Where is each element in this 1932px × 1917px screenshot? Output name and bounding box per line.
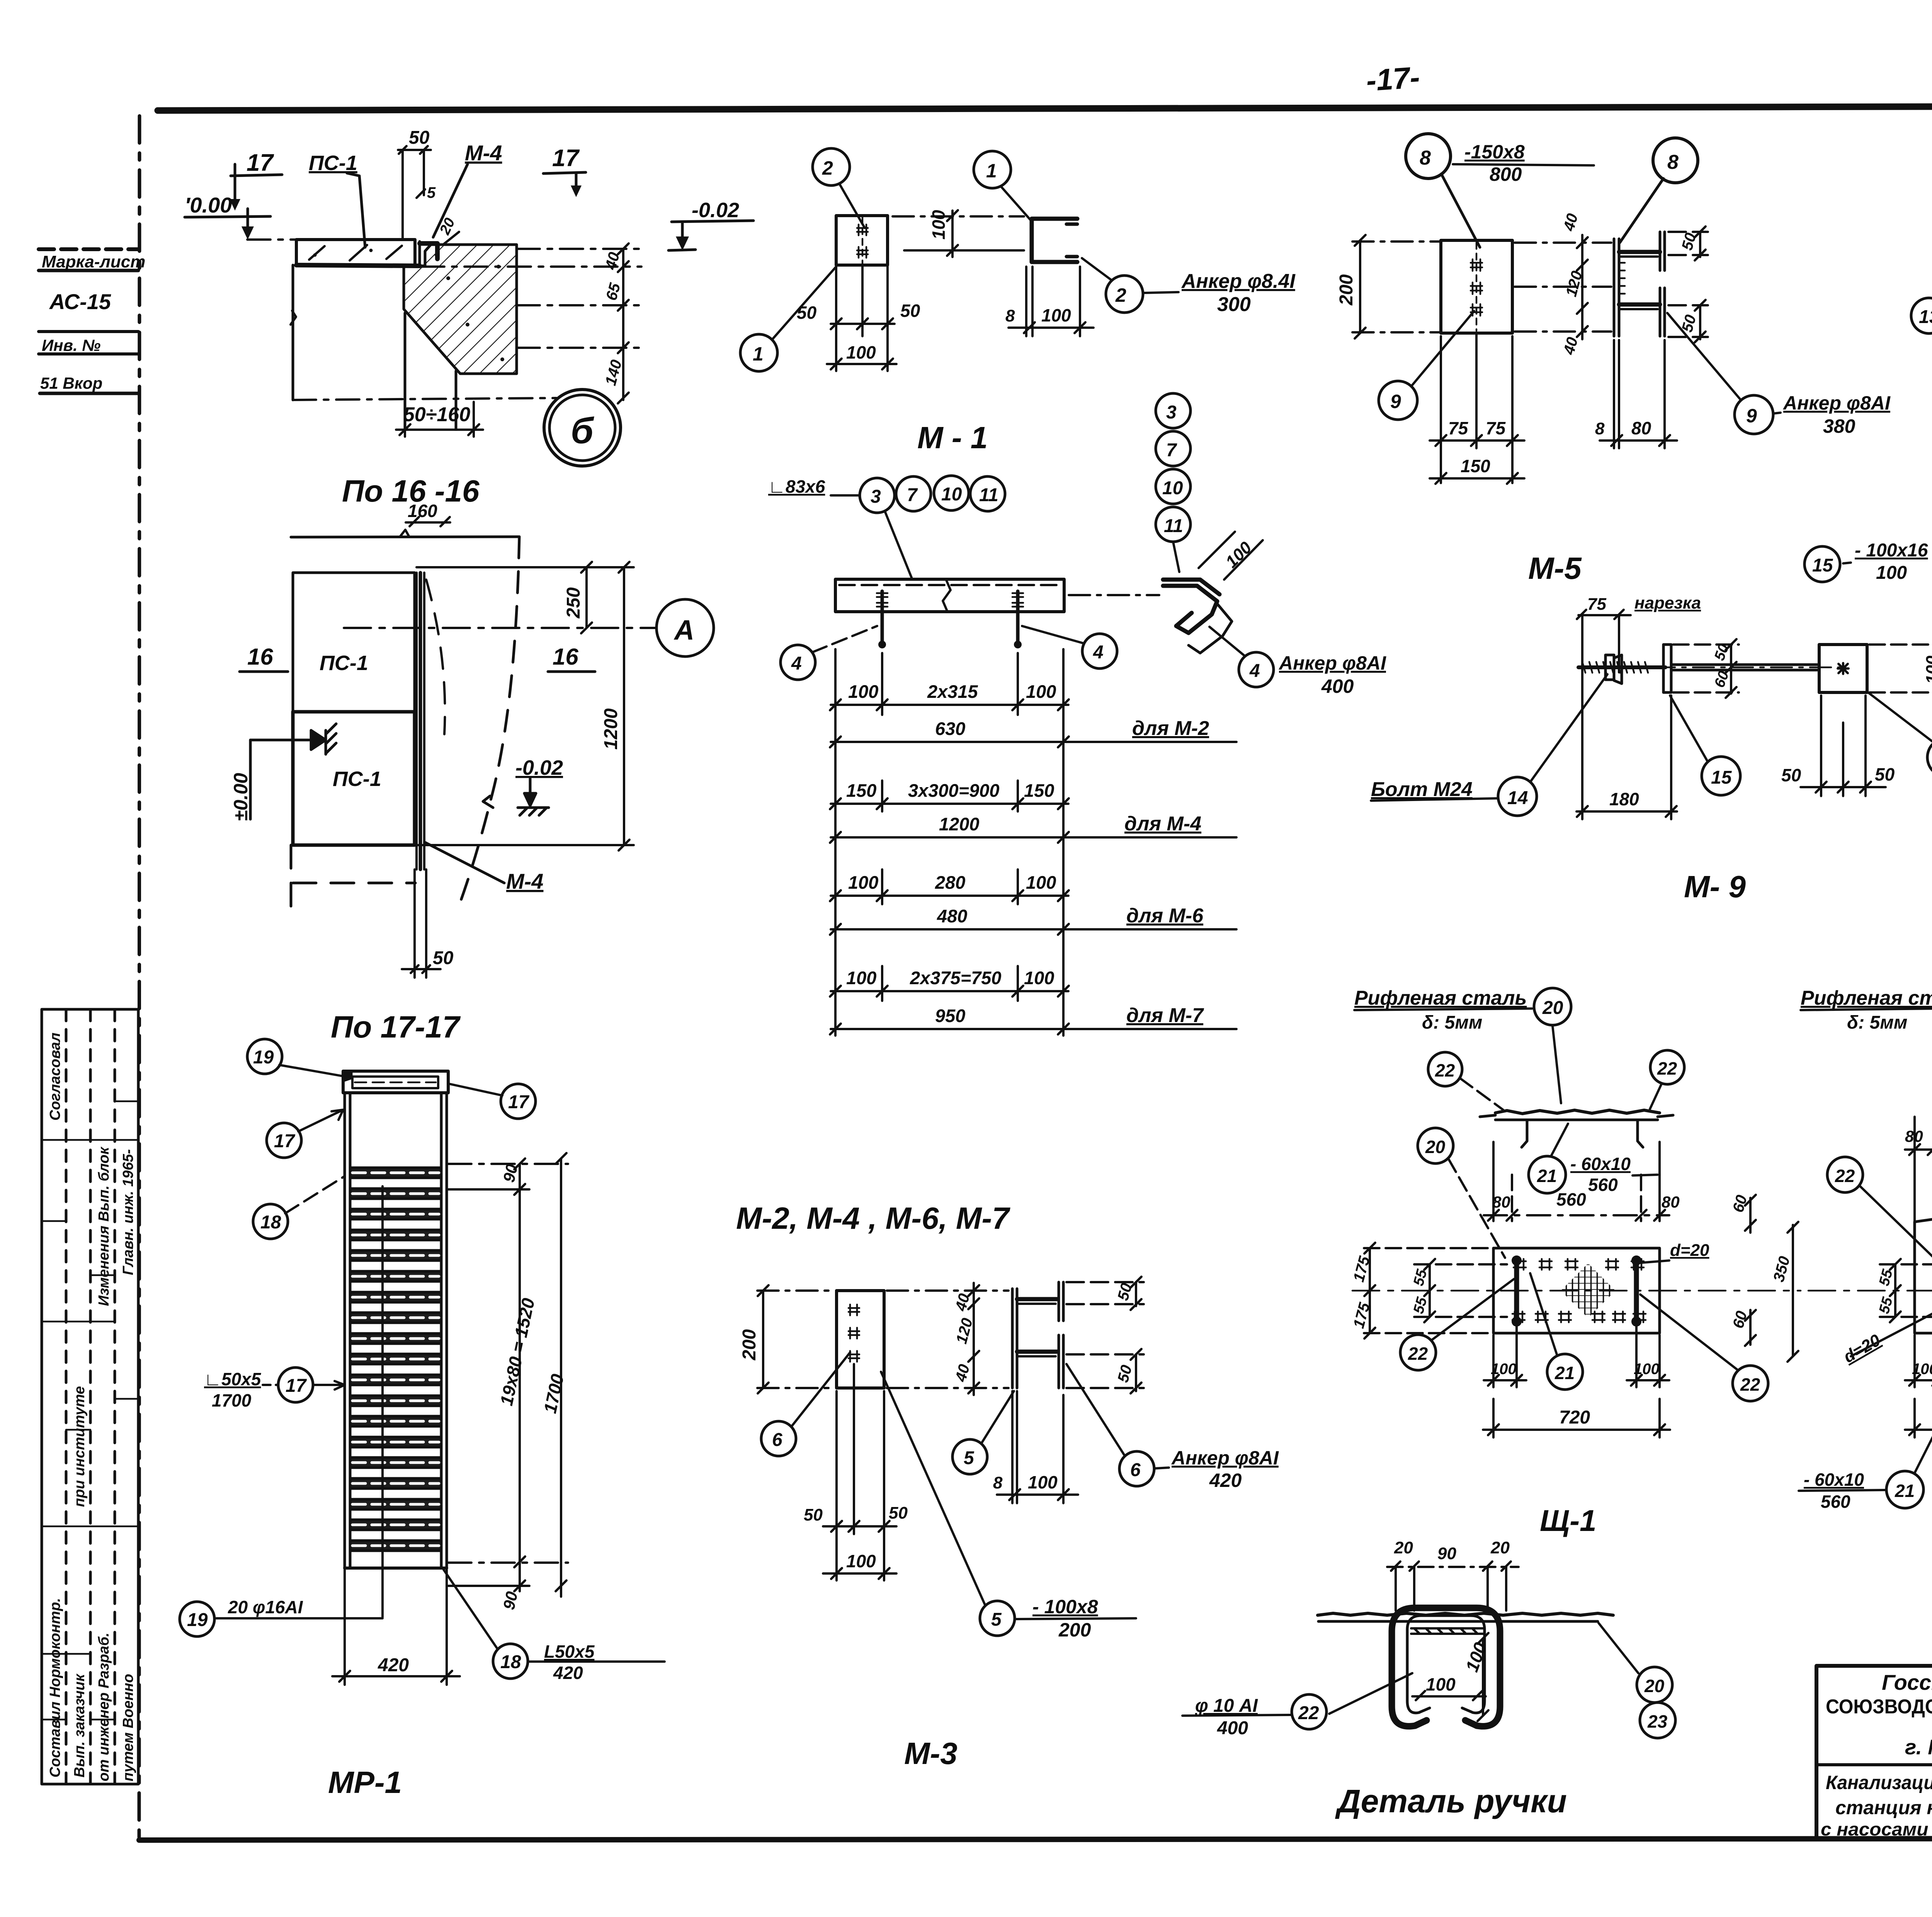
marker circle 8 right [1653,138,1698,183]
callout L50x5/420 with circle 18 [493,1644,528,1679]
svg-text:2x315: 2x315 [927,681,978,702]
svg-text:7: 7 [907,485,918,505]
svg-text:∟83x6: ∟83x6 [768,476,825,497]
top checkered plate [1318,1613,1613,1621]
dim row y=1920 [830,737,1069,747]
dim row y=1824 [830,699,1069,710]
svg-text:- 100x8: - 100x8 [1032,1596,1098,1618]
dims 40 120 40 [1577,235,1588,339]
svg-text:L50x5: L50x5 [544,1641,595,1662]
svg-text:800: 800 [1490,163,1522,185]
dim 100 vertical [1478,1633,1488,1721]
svg-text:75: 75 [1448,418,1469,438]
corner bracket detail [1163,580,1232,653]
svg-text:420: 420 [553,1663,583,1683]
svg-text:МР-1: МР-1 [328,1765,402,1800]
marker circle 22 right low [1733,1366,1768,1401]
svg-text:2: 2 [1115,284,1126,306]
dim 100 vertical between views [947,210,958,257]
panel top edge [291,537,519,537]
svg-text:80: 80 [1905,1127,1923,1145]
dim row 80 560 80 above Щ-1 [1484,1142,1669,1221]
svg-text:100: 100 [1923,655,1932,684]
centerline Щ-2 [1808,1290,1932,1292]
dim 180 [1577,696,1677,819]
svg-text:40: 40 [1560,212,1581,233]
marker circle 2 right with anchor text [1106,276,1143,313]
marker circle 13 left [1911,298,1932,333]
svg-text:-0.02: -0.02 [515,756,563,779]
marker circle 6 left [761,1421,796,1456]
embedded strip М-4 [417,573,424,869]
svg-text:100: 100 [1912,1361,1932,1378]
svg-text:100: 100 [1026,872,1056,893]
dims 40 120 40 mid [968,1283,979,1395]
svg-text:б: б [571,410,594,451]
svg-text:17: 17 [286,1376,307,1396]
svg-text:15: 15 [1711,767,1732,788]
svg-text:для М-4: для М-4 [1124,813,1201,835]
svg-text:55: 55 [1410,1267,1430,1288]
svg-text:11: 11 [979,485,998,505]
svg-text:1700: 1700 [540,1372,568,1415]
marker circle 5 [952,1439,987,1474]
svg-text:150: 150 [846,780,876,801]
svg-text:17: 17 [552,145,580,172]
svg-text:для М-7: для М-7 [1126,1004,1204,1027]
svg-text:100: 100 [1041,305,1071,325]
svg-text:280: 280 [935,872,965,893]
figure МР-1 ladder : top cap plate [343,1071,448,1093]
right dim chain 40 65 140 [618,243,629,403]
dim row y=2080 [830,798,1069,809]
svg-text:16: 16 [553,644,578,670]
svg-text:δ: 5мм: δ: 5мм [1422,1012,1482,1033]
svg-text:М-5: М-5 [1528,551,1582,585]
marker circle 1 left low [740,334,777,371]
svg-text:250: 250 [563,587,584,619]
svg-text:8: 8 [1595,419,1605,438]
svg-text:21: 21 [1554,1363,1575,1383]
svg-text:4: 4 [1249,661,1260,681]
svg-text:3: 3 [871,486,881,507]
dims 8 80 below section [1600,340,1677,448]
svg-text:21: 21 [1895,1481,1915,1501]
svg-text:400: 400 [1321,675,1354,697]
svg-text:d=20: d=20 [1840,1330,1884,1366]
svg-text:18: 18 [500,1652,521,1672]
dims 8 100 below section [997,1391,1078,1503]
svg-text:Главн. инж. 1965-: Главн. инж. 1965- [120,1149,136,1275]
dims 50 50 below plate [831,267,895,371]
svg-text:Деталь ручки: Деталь ручки [1335,1783,1567,1819]
hatched seat inside handle [1411,1628,1484,1634]
svg-text:Составил Нормоконтр.: Составил Нормоконтр. [47,1598,63,1778]
svg-text:350: 350 [1770,1254,1793,1284]
bolts in Щ-1 [1512,1255,1641,1327]
svg-text:для М-2: для М-2 [1132,717,1209,740]
marker circle 6 right with anchor label [1119,1451,1154,1486]
svg-text:при институте: при институте [71,1386,88,1507]
svg-text:11: 11 [1164,516,1183,536]
detail circle б [544,390,621,466]
svg-text:Болт М24: Болт М24 [1371,778,1473,801]
svg-text:50: 50 [1781,765,1801,785]
svg-text:160: 160 [408,501,437,521]
svg-text:-17-: -17- [1365,60,1421,97]
svg-text:δ: 5мм: δ: 5мм [1847,1012,1907,1033]
marker circle 18 upper [253,1204,288,1239]
svg-text:9: 9 [1390,391,1401,412]
svg-text:140: 140 [602,358,625,387]
callout circle 15 with -100x16/100 [1804,546,1840,582]
marker circle 17 left [267,1123,301,1158]
svg-text:40: 40 [1560,335,1581,357]
svg-text:8: 8 [1667,151,1679,173]
marker circle 22 upper [1827,1157,1863,1192]
dims 8 100 below channel [1009,267,1094,336]
C-profile handle [1392,1608,1500,1726]
svg-text:8: 8 [1005,306,1015,325]
svg-text:19: 19 [253,1047,274,1068]
svg-text:200: 200 [739,1329,760,1361]
svg-text:1200: 1200 [939,814,980,834]
svg-text:Канализационная насосная: Канализационная насосная [1826,1772,1932,1793]
dim 100 horizontal [1412,1691,1486,1700]
marker circle 17 right of cap [501,1084,536,1119]
dim row y=2318 [830,890,1069,901]
svg-text:100: 100 [1222,538,1255,572]
marker circle 4 far right with anchor label [1239,652,1274,687]
svg-text:80: 80 [1662,1193,1680,1211]
svg-text:55: 55 [1410,1295,1430,1316]
svg-text:10: 10 [941,484,962,505]
dim 420 bottom [332,1570,460,1685]
svg-text:1700: 1700 [212,1390,252,1410]
svg-text:50: 50 [433,948,454,968]
svg-text:Изменения Вып. блок: Изменения Вып. блок [96,1146,112,1306]
dims 100 100 below Щ-1 [1484,1325,1669,1387]
svg-text:50÷160: 50÷160 [403,403,470,426]
dash-dot link to corner bracket [1069,594,1159,596]
svg-text:6: 6 [1130,1460,1141,1480]
Щ-1 plate [1493,1248,1660,1333]
svg-text:100: 100 [1634,1361,1660,1378]
plate side view above Щ-1 [1480,1110,1673,1147]
long rod to plate [1671,663,1817,666]
svg-text:10: 10 [1162,478,1183,498]
dims 100 100 below Щ-2 [1905,1325,1932,1387]
svg-text:1200: 1200 [601,708,621,750]
svg-text:-0.02: -0.02 [692,199,739,222]
svg-text:19: 19 [187,1610,208,1630]
svg-text:150: 150 [1461,456,1490,476]
dims 50 50 and 100 below plate [823,1364,896,1580]
svg-text:По 17-17: По 17-17 [331,1010,461,1044]
marker circle 9 left [1379,381,1417,420]
link lines to section [887,1291,1009,1388]
dim 720 Щ-1 [1483,1399,1670,1437]
section marker 17 right [543,172,586,197]
svg-text:100: 100 [1026,681,1056,702]
svg-text:50: 50 [797,303,817,323]
callout 21 -60x10/560 bottom [1886,1471,1923,1508]
dims 50 50 at plate [1801,696,1886,796]
svg-text:18: 18 [260,1212,281,1233]
svg-text:М-4: М-4 [506,869,543,893]
svg-text:от инженер Разраб.: от инженер Разраб. [96,1633,112,1781]
level mark ±0.00 left [250,724,336,819]
left margin stamp boxes upper [39,249,138,393]
svg-text:М-4: М-4 [465,141,502,165]
svg-text:20: 20 [1490,1538,1510,1557]
svg-text:50: 50 [1114,1363,1135,1384]
dim 100 below plate [827,359,896,369]
figure М-3 : plate view [837,1291,884,1388]
svg-text:9: 9 [1746,405,1757,427]
I-beam section [1012,1282,1063,1388]
svg-text:720: 720 [1559,1407,1590,1428]
callout 20 ф16АТ with circle 19 [180,1602,214,1636]
svg-text:13: 13 [1919,307,1932,327]
I-beam section М-5 [1614,232,1665,336]
svg-text:Инв. №: Инв. № [42,336,100,354]
svg-text:50: 50 [889,1504,908,1522]
svg-text:380: 380 [1823,415,1855,437]
svg-text:′0.00: ′0.00 [185,193,232,217]
svg-text:Анкер φ8.4І: Анкер φ8.4І [1181,270,1296,293]
svg-text:22: 22 [1740,1374,1760,1395]
svg-text:100: 100 [1462,1640,1491,1674]
marker circle 15 [1702,757,1740,795]
svg-text:5: 5 [991,1609,1002,1630]
plate М-1 plan [836,216,888,265]
dashed bottom outline [291,845,415,912]
svg-text:100: 100 [846,342,876,362]
svg-text:60: 60 [1711,669,1732,690]
svg-text:100: 100 [848,872,878,893]
svg-text:6: 6 [772,1430,782,1450]
svg-text:150: 150 [1024,780,1054,801]
svg-text:65: 65 [603,281,624,302]
svg-text:51 Вкор: 51 Вкор [40,374,102,392]
svg-text:20 φ16АІ: 20 φ16АІ [228,1597,303,1617]
svg-text:20: 20 [1394,1538,1413,1557]
square plate with plug weld [1819,645,1867,692]
svg-text:100: 100 [1024,968,1054,988]
svg-text:φ 10 АІ: φ 10 АІ [1195,1696,1259,1716]
svg-text:2x375=750: 2x375=750 [910,968,1002,988]
svg-text:75: 75 [1486,418,1506,438]
dim row y=2405 [830,924,1069,935]
svg-text:200: 200 [1058,1619,1091,1641]
svg-text:М- 9: М- 9 [1684,869,1746,904]
svg-text:100: 100 [1491,1361,1517,1378]
svg-text:400: 400 [1217,1718,1248,1738]
svg-text:950: 950 [935,1005,965,1026]
svg-text:- 60x10: - 60x10 [1570,1154,1631,1174]
svg-text:1: 1 [753,343,764,365]
dims 50 50 vertical between [1673,639,1739,698]
svg-text:90: 90 [1437,1544,1456,1563]
svg-text:80: 80 [1492,1193,1510,1211]
dim 150 [1430,473,1524,484]
svg-text:420: 420 [378,1655,409,1675]
marker circle 4 left [781,645,815,680]
marker circle 4 right [1082,634,1117,668]
lower thin wall [291,265,456,428]
marker circle 9 right with anchor label [1735,395,1773,434]
svg-text:- 60x10: - 60x10 [1804,1470,1864,1490]
svg-text:20: 20 [1542,998,1563,1018]
svg-text:∟50x5: ∟50x5 [204,1369,262,1389]
svg-text:22: 22 [1298,1703,1319,1723]
dim row y=2167 [830,832,1069,843]
svg-text:560: 560 [1588,1175,1618,1195]
svg-text:17: 17 [274,1131,296,1152]
hatched concrete block [404,245,517,374]
svg-text:4: 4 [791,653,802,674]
dims 75 75 below plate [1430,335,1524,483]
panel ПС-1 upper [293,573,415,712]
marker circle 22 low left [1400,1335,1436,1370]
svg-text:5: 5 [427,184,436,201]
svg-text:Марка-лист: Марка-лист [42,252,145,271]
svg-text:100: 100 [1426,1674,1456,1694]
svg-text:8: 8 [1420,147,1431,169]
svg-text:90: 90 [500,1162,521,1184]
svg-text:100: 100 [929,210,949,240]
svg-text:100: 100 [846,1551,876,1571]
svg-text:Анкер φ8АІ: Анкер φ8АІ [1278,652,1386,674]
marker circle 5 bottom with plate label [980,1601,1015,1636]
svg-text:- 100x16: - 100x16 [1855,540,1928,561]
svg-text:55: 55 [1876,1295,1896,1316]
figure М-1 : marker circle 2 [813,148,850,185]
svg-text:560: 560 [1821,1492,1850,1512]
svg-text:100: 100 [1876,563,1907,583]
svg-text:ПС-1: ПС-1 [320,651,368,675]
dims 50 50 right [1668,226,1708,342]
anchor hooks under plate [877,591,888,648]
concrete slab [296,240,420,266]
dash-dot link line [893,215,1024,218]
left dims 175 175 55 55 [1364,1243,1507,1339]
svg-text:4: 4 [1093,642,1104,663]
marker circle 14 right [1927,738,1932,777]
marker circle 21 bottom [1547,1354,1583,1390]
svg-text:2: 2 [822,157,833,179]
dimension table verticals [835,649,1063,1036]
svg-text:20: 20 [1425,1137,1446,1157]
svg-text:-150x8: -150x8 [1464,141,1525,163]
svg-text:М-2, М-4 , М-6, М-7: М-2, М-4 , М-6, М-7 [736,1201,1010,1235]
link lines to section [1515,243,1611,332]
dim 250 [417,562,634,633]
panel ПС-1 lower [293,712,415,845]
svg-text:22: 22 [1435,1060,1455,1080]
svg-text:d=20: d=20 [1670,1241,1709,1260]
svg-text:для М-6: для М-6 [1126,905,1204,927]
svg-text:50: 50 [900,301,920,321]
dims 55 55 left of Щ-2 [1880,1259,1932,1322]
svg-text:17: 17 [247,150,274,176]
marker circle 20 left [1418,1128,1453,1163]
dashed curved edge right [457,537,519,912]
svg-text:АС-15: АС-15 [49,289,111,314]
svg-text:СОЮЗВОДОКАНАЛПРОЕКТ: СОЮЗВОДОКАНАЛПРОЕКТ [1826,1696,1932,1718]
marker circle 19 [247,1039,282,1074]
diagonal dim 100 at bracket [1199,532,1263,580]
svg-text:Щ-1: Щ-1 [1540,1504,1596,1538]
svg-text:180: 180 [1609,789,1639,809]
svg-text:420: 420 [1209,1470,1242,1491]
dim 200 left [757,1285,835,1393]
ladder rungs (19x) [350,1168,441,1178]
dim 1200 [417,562,634,850]
dim row y=2663 [830,1024,1069,1034]
svg-text:15: 15 [1812,555,1833,576]
dim row 80 560 80 above Щ-2 [1905,1117,1932,1221]
svg-text:г. Москва: г. Москва [1905,1735,1932,1759]
svg-text:90: 90 [500,1590,521,1611]
dim 200 left [1352,235,1439,338]
dims 50 50 right [1066,1277,1144,1393]
left margin lower stamp column [42,1009,138,1784]
right dim chain 90 / 19x80=1520 / 90 [448,1158,568,1591]
svg-text:ПС-1: ПС-1 [309,151,357,175]
callout 21 -60x10/560 [1529,1156,1566,1193]
svg-text:М - 1: М - 1 [917,420,988,455]
svg-text:1: 1 [986,160,997,182]
svg-text:50: 50 [804,1505,823,1524]
svg-text:5: 5 [964,1448,975,1468]
svg-text:19x80 = 1520: 19x80 = 1520 [496,1296,539,1407]
dim 100 right [1869,639,1932,698]
leader to circles 20 23 [1599,1623,1638,1673]
svg-text:М-3: М-3 [904,1736,957,1771]
svg-text:Вып. заказчик: Вып. заказчик [71,1674,88,1778]
svg-text:3x300=900: 3x300=900 [908,780,1000,801]
svg-text:75: 75 [1587,595,1606,614]
svg-text:Рифленая сталь: Рифленая сталь [1354,987,1527,1009]
svg-text:8: 8 [993,1473,1003,1492]
marker circle 1 [974,151,1011,188]
center rebar line [381,1186,384,1617]
svg-text:с насосами 2½ НФ или 4НФ: с насосами 2½ НФ или 4НФ [1821,1819,1932,1839]
svg-text:300: 300 [1217,293,1251,316]
svg-text:16: 16 [247,644,273,670]
svg-text:21: 21 [1537,1166,1557,1186]
svg-text:Анкер φ8АІ: Анкер φ8АІ [1171,1447,1279,1469]
vertical marker circles 3 7 10 11 [1156,393,1190,542]
svg-text:17: 17 [508,1092,530,1112]
dim row y=2565 [830,986,1069,997]
svg-text:станция на 3 агрегата: станция на 3 агрегата [1835,1797,1932,1818]
dash-dot reference lines [247,240,641,400]
figure По 16-16 : section marker 17 left [230,164,282,211]
svg-text:нарезка: нарезка [1634,594,1701,612]
svg-text:А: А [673,615,694,646]
svg-text:100: 100 [846,968,876,988]
vertical washer plate [1663,645,1671,692]
marker circle 14 left with Болт М24 [1498,777,1537,816]
svg-text:20: 20 [1644,1676,1665,1696]
svg-text:14: 14 [1507,788,1528,808]
svg-text:22: 22 [1408,1344,1428,1364]
svg-text:560: 560 [1556,1189,1586,1209]
svg-text:50: 50 [409,128,430,148]
